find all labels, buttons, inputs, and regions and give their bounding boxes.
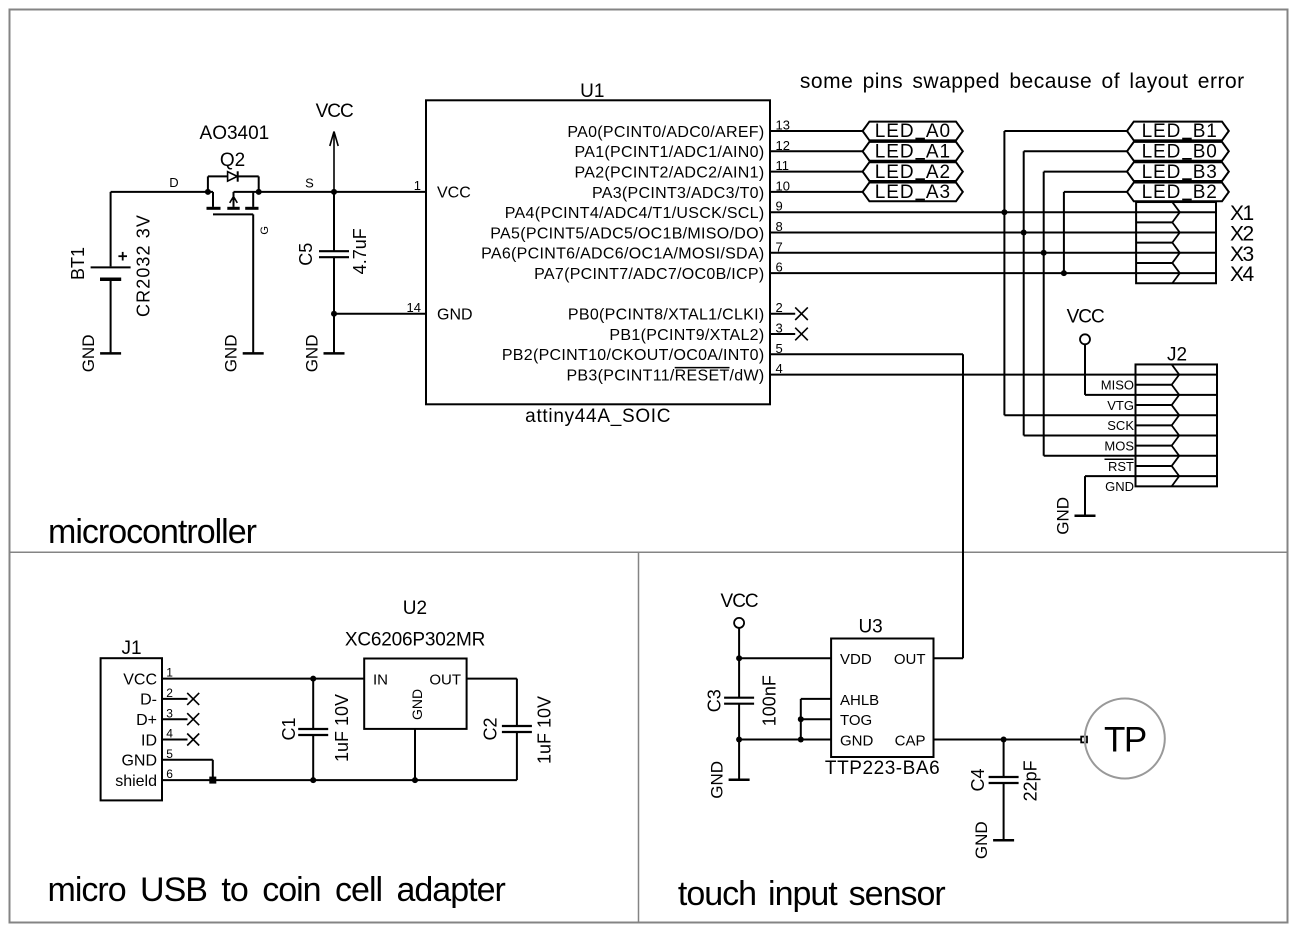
svg-text:GND: GND [708,761,727,799]
svg-text:TTP223-BA6: TTP223-BA6 [825,758,940,779]
svg-text:micro USB to coin cell adapter: micro USB to coin cell adapter [48,871,506,909]
svg-text:4.7uF: 4.7uF [350,228,370,274]
svg-text:B2: B2 [1193,182,1218,203]
svg-text:LED: LED [875,121,915,142]
svg-text:A2: A2 [926,162,951,183]
svg-text:C3: C3 [704,689,724,712]
svg-text:TP: TP [1104,720,1146,759]
svg-text:PA2(PCINT2/ADC2/AIN1): PA2(PCINT2/ADC2/AIN1) [574,165,764,182]
svg-text:14: 14 [407,300,421,315]
svg-text:VCC: VCC [316,101,353,122]
svg-text:D+: D+ [136,712,157,729]
svg-text:1: 1 [414,178,421,193]
svg-text:VCC: VCC [437,185,471,202]
svg-text:B0: B0 [1193,142,1218,163]
svg-text:GND: GND [222,335,241,373]
svg-text:LED: LED [1142,142,1182,163]
svg-text:XC6206P302MR: XC6206P302MR [345,630,485,651]
svg-text:LED: LED [875,182,915,203]
svg-text:microcontroller: microcontroller [48,513,257,551]
svg-text:LED: LED [875,162,915,183]
svg-text:A1: A1 [926,142,951,163]
svg-text:1uF 10V: 1uF 10V [332,694,352,762]
svg-text:C5: C5 [296,243,316,266]
svg-text:CR2032 3V: CR2032 3V [133,214,153,317]
svg-text:Q2: Q2 [220,150,245,171]
svg-text:D: D [169,175,178,190]
svg-text:GND: GND [303,335,322,373]
svg-text:1uF 10V: 1uF 10V [535,696,555,764]
svg-text:22pF: 22pF [1021,760,1041,801]
svg-text:PA6(PCINT6/ADC6/OC1A/MOSI/SDA): PA6(PCINT6/ADC6/OC1A/MOSI/SDA) [481,246,764,263]
svg-text:PA3(PCINT3/ADC3/T0): PA3(PCINT3/ADC3/T0) [592,185,765,202]
svg-text:J2: J2 [1167,344,1187,365]
svg-text:AHLB: AHLB [840,692,879,709]
svg-text:PA1(PCINT1/ADC1/AIN0): PA1(PCINT1/ADC1/AIN0) [574,144,764,161]
svg-text:BT1: BT1 [68,247,88,280]
svg-text:PB3(PCINT11/RESET/dW): PB3(PCINT11/RESET/dW) [566,368,764,385]
svg-text:IN: IN [373,671,388,688]
svg-text:C4: C4 [968,768,988,791]
svg-text:B3: B3 [1193,162,1218,183]
svg-text:PB2(PCINT10/CKOUT/OC0A/INT0): PB2(PCINT10/CKOUT/OC0A/INT0) [502,347,765,364]
svg-text:PB1(PCINT9/XTAL2): PB1(PCINT9/XTAL2) [609,327,764,344]
svg-text:U1: U1 [580,81,604,102]
svg-text:VDD: VDD [840,651,872,668]
svg-text:A3: A3 [926,182,951,203]
svg-text:OUT: OUT [894,651,926,668]
svg-text:VCC: VCC [1067,306,1104,327]
svg-text:MISO: MISO [1101,378,1134,393]
svg-text:LED: LED [875,142,915,163]
svg-text:TOG: TOG [840,712,872,729]
svg-text:GND: GND [409,689,425,720]
svg-text:MOS: MOS [1104,439,1134,454]
svg-text:U2: U2 [403,598,427,619]
svg-text:C2: C2 [481,717,501,740]
svg-text:CAP: CAP [895,732,926,749]
svg-text:GND: GND [1054,497,1073,535]
svg-text:PA5(PCINT5/ADC5/OC1B/MISO/DO): PA5(PCINT5/ADC5/OC1B/MISO/DO) [490,225,764,242]
svg-text:J1: J1 [122,638,142,659]
svg-text:S: S [305,175,314,190]
svg-text:LED: LED [1142,182,1182,203]
svg-text:VCC: VCC [123,671,157,688]
svg-text:PB0(PCINT8/XTAL1/CLKI): PB0(PCINT8/XTAL1/CLKI) [568,307,765,324]
svg-text:SCK: SCK [1107,418,1134,433]
svg-text:GND: GND [437,307,473,324]
svg-text:attiny44A_SOIC: attiny44A_SOIC [525,406,671,427]
svg-text:GND: GND [1105,479,1134,494]
svg-text:ID: ID [141,732,157,749]
svg-text:PA4(PCINT4/ADC4/T1/USCK/SCL): PA4(PCINT4/ADC4/T1/USCK/SCL) [505,205,765,222]
svg-text:RST: RST [1108,459,1134,474]
svg-text:VCC: VCC [721,591,758,612]
svg-text:VTG: VTG [1107,398,1134,413]
svg-text:shield: shield [115,773,157,790]
svg-text:GND: GND [840,732,874,749]
svg-text:AO3401: AO3401 [200,123,270,144]
svg-text:LED: LED [1142,121,1182,142]
svg-text:G: G [259,226,271,235]
svg-text:U3: U3 [858,616,882,637]
svg-text:100nF: 100nF [759,675,779,726]
svg-text:LED: LED [1142,162,1182,183]
svg-text:some pins swapped because of l: some pins swapped because of layout erro… [800,70,1245,93]
svg-text:GND: GND [121,753,157,770]
svg-text:A0: A0 [926,121,951,142]
svg-text:PA7(PCINT7/ADC7/OC0B/ICP): PA7(PCINT7/ADC7/OC0B/ICP) [534,266,764,283]
svg-text:D-: D- [140,692,157,709]
svg-text:GND: GND [79,335,98,373]
svg-text:B1: B1 [1193,121,1218,142]
svg-text:touch input sensor: touch input sensor [678,875,946,913]
svg-text:PA0(PCINT0/ADC0/AREF): PA0(PCINT0/ADC0/AREF) [567,124,764,141]
svg-text:C1: C1 [279,717,299,740]
svg-text:X4: X4 [1230,263,1255,286]
svg-text:OUT: OUT [429,671,461,688]
svg-text:GND: GND [972,821,991,859]
